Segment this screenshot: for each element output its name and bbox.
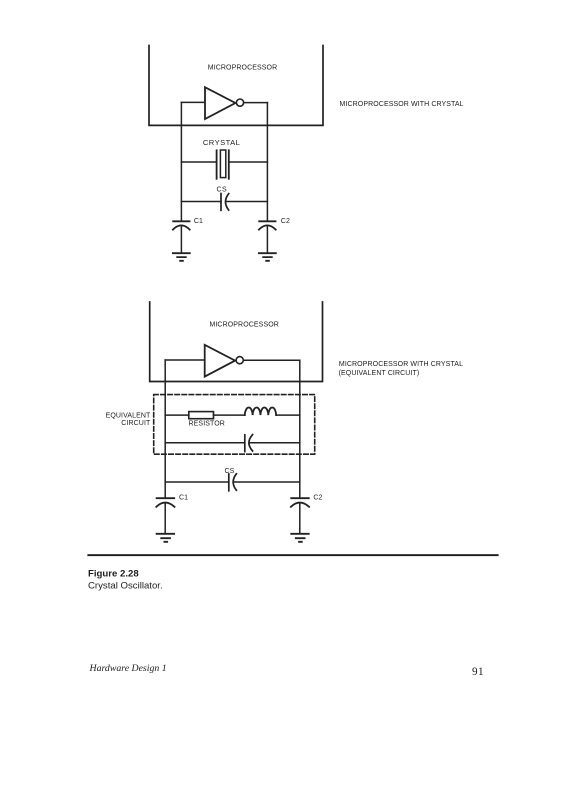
svg-text:MICROPROCESSOR: MICROPROCESSOR [208, 65, 277, 72]
wire: inverter output to right rail [244, 102, 268, 104]
caption rule [87, 554, 498, 556]
svg-text:C1: C1 [179, 495, 188, 502]
wire: left rail down to C1 (bottom diagram) [164, 360, 166, 498]
wire: feedback from inverter input to left rail (bottom) [165, 359, 204, 361]
svg-text:CS: CS [217, 187, 228, 194]
wire: feedback from inverter input to left rail [181, 101, 204, 103]
wire: CS cap to right rail [226, 201, 267, 203]
microprocessor box 2 (open top) [150, 302, 323, 382]
inverter U2 output bubble [236, 357, 243, 364]
svg-text:C2: C2 [281, 218, 290, 225]
svg-text:CIRCUIT: CIRCUIT [121, 420, 151, 427]
wire: C2 to ground (bottom diagram) [299, 504, 301, 534]
wire: left rail to equivalent capacitor [165, 442, 245, 444]
svg-text:MICROPROCESSOR WITH CRYSTAL: MICROPROCESSOR WITH CRYSTAL [339, 361, 463, 368]
svg-text:MICROPROCESSOR WITH CRYSTAL: MICROPROCESSOR WITH CRYSTAL [340, 101, 464, 108]
capacitor CS curved plate (bottom) [233, 474, 236, 490]
capacitor C2 curved plate (bottom diagram) [291, 503, 309, 507]
wire: C1 to ground [180, 227, 182, 253]
capacitor C1 top plate [173, 220, 189, 222]
resistor R1 body [189, 412, 214, 419]
ground (below C1, top diagram) [173, 253, 190, 261]
capacitor C2 top plate (bottom diagram) [291, 497, 309, 499]
wire: left rail (inverter input down to C1) [180, 102, 182, 221]
svg-text:CRYSTAL: CRYSTAL [203, 138, 240, 147]
ground (below C2, bottom diagram) [291, 534, 309, 542]
wire: resistor to inductor [214, 414, 245, 416]
wire: inverter output to right rail (bottom) [243, 359, 299, 361]
inverter gate U1 [205, 87, 235, 119]
capacitor CS straight plate (bottom) [228, 474, 230, 491]
wire: C1 to ground (bottom diagram) [164, 504, 166, 534]
capacitor CS curved plate [226, 194, 229, 211]
wire: CS cap to right rail (bottom) [234, 481, 300, 483]
svg-text:RESISTOR: RESISTOR [189, 421, 225, 428]
wire: crystal to right rail [229, 161, 267, 163]
wire: C2 to ground [266, 227, 268, 253]
svg-text:Figure 2.28: Figure 2.28 [88, 569, 139, 580]
capacitor C2 top plate [259, 220, 275, 222]
capacitor C2 curved plate [259, 225, 276, 229]
svg-text:Hardware Design 1: Hardware Design 1 [89, 663, 167, 674]
ground (below C1, bottom diagram) [157, 534, 175, 542]
crystal Y1 body rectangle [220, 150, 225, 178]
svg-text:91: 91 [472, 666, 484, 678]
capacitor C1 curved plate (bottom diagram) [156, 503, 174, 507]
svg-text:EQUIVALENT: EQUIVALENT [106, 412, 151, 419]
svg-text:C2: C2 [313, 495, 322, 502]
inductor L1 [245, 408, 276, 416]
capacitor C1 top plate (bottom diagram) [157, 497, 175, 499]
svg-text:MICROPROCESSOR: MICROPROCESSOR [209, 321, 278, 328]
microprocessor box (open top) [149, 46, 323, 126]
capacitor C1 curved plate [173, 225, 190, 229]
wire: equivalent capacitor to right rail [250, 442, 300, 444]
equivalent-circuit dashed box [154, 395, 315, 455]
crystal Y1 left plate [216, 150, 218, 179]
svg-text:C1: C1 [194, 218, 203, 225]
wire: left rail to CS cap [181, 201, 221, 203]
equivalent capacitor curved plate [249, 435, 253, 451]
equivalent capacitor straight plate [244, 435, 246, 452]
svg-text:Crystal Oscillator.: Crystal Oscillator. [88, 580, 163, 591]
wire: left rail to resistor [165, 414, 189, 416]
inverter gate U2 [205, 345, 235, 377]
wire: right rail down to C2 (bottom diagram) [299, 360, 301, 498]
wire: inductor to right rail [276, 414, 300, 416]
wire: right rail (output down to C2) [266, 103, 268, 221]
capacitor CS straight plate [220, 194, 222, 211]
svg-text:(EQUIVALENT CIRCUIT): (EQUIVALENT CIRCUIT) [339, 370, 420, 377]
ground (below C2, top diagram) [259, 253, 276, 261]
inverter U1 output bubble [236, 99, 243, 106]
wire: left rail to crystal [181, 161, 216, 163]
crystal Y1 right plate [228, 150, 230, 179]
wire: left rail to CS cap (bottom) [165, 481, 229, 483]
